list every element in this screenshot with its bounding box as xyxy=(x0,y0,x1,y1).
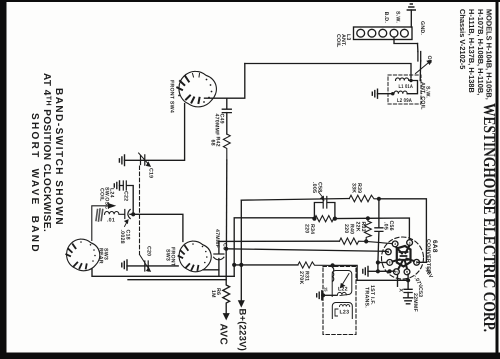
coil L2 xyxy=(394,91,407,94)
L22 slug outline xyxy=(332,271,352,297)
label R34 220 xyxy=(304,224,316,234)
svg-text:6A8: 6A8 xyxy=(431,240,438,253)
svg-text:.0028: .0028 xyxy=(119,230,125,244)
capacitor C56 xyxy=(375,228,383,232)
svg-text:OD: OD xyxy=(426,56,432,64)
svg-text:3: 3 xyxy=(394,242,396,246)
svg-text:-95V: -95V xyxy=(423,266,434,280)
IF trimmer arrow xyxy=(341,274,350,288)
svg-text:B+(223V): B+(223V) xyxy=(237,309,248,352)
svg-text:.005: .005 xyxy=(311,182,317,193)
label R6 1M xyxy=(210,288,221,298)
node R39/C56 xyxy=(377,197,381,201)
label L24 SW.OSC COIL xyxy=(99,187,115,209)
heater stub X xyxy=(397,275,399,287)
B+ arrow xyxy=(238,301,244,307)
L23 slug xyxy=(332,303,352,319)
wire main horizontal top xyxy=(245,64,411,79)
coil L24 winding xyxy=(105,212,125,215)
osc coil arm wire + arrow xyxy=(92,206,109,241)
svg-text:TRANS.: TRANS. xyxy=(364,287,370,308)
svg-text:COIL: COIL xyxy=(99,188,105,202)
tube 6A8 converter xyxy=(382,237,424,279)
coil core xyxy=(96,209,103,221)
svg-text:H-107B, H-108B, H-110B,: H-107B, H-108B, H-110B, xyxy=(476,9,485,95)
node C53 xyxy=(406,278,410,282)
IF primary coil xyxy=(333,268,334,282)
ground near tube xyxy=(363,267,378,277)
node L2 left xyxy=(391,92,394,95)
coil bumps xyxy=(338,292,347,294)
node R34 right xyxy=(333,217,337,221)
svg-text:MODELS H-104B, H-105B,: MODELS H-104B, H-105B, xyxy=(485,9,494,100)
label 6A8 CONVERTER xyxy=(425,239,438,274)
node R33 bottom xyxy=(364,239,368,243)
svg-text:H-111B, H-137B, H-138B: H-111B, H-137B, H-138B xyxy=(467,9,476,93)
B+ vertical / plate wire corner xyxy=(240,200,242,301)
ground at C22 xyxy=(114,181,119,190)
svg-text:C22: C22 xyxy=(123,191,129,201)
label C18 .0028 with arrow xyxy=(119,230,131,244)
capacitor OD (antenna series) xyxy=(418,44,421,81)
wire screen row xyxy=(219,240,340,242)
label SW3 REAR xyxy=(98,248,109,264)
capacitor C18 xyxy=(125,210,133,219)
svg-text:22K: 22K xyxy=(355,222,361,232)
wire osc grid xyxy=(226,249,388,252)
coil L1 xyxy=(396,78,412,81)
svg-text:REAR: REAR xyxy=(98,248,104,264)
wire SW3 rear bottom xyxy=(92,269,234,277)
node R33 top xyxy=(366,216,370,220)
svg-text:270K: 270K xyxy=(298,271,304,284)
svg-text:C20: C20 xyxy=(146,246,152,256)
svg-text:.01: .01 xyxy=(107,218,115,224)
svg-text:AT 4TH POSITION CLOCKWISE.: AT 4TH POSITION CLOCKWISE. xyxy=(41,73,52,232)
svg-text:15: 15 xyxy=(324,287,329,292)
resistor R31 xyxy=(298,262,333,268)
wire C18 node to SW3 front xyxy=(133,214,183,241)
svg-text:COIL: COIL xyxy=(335,34,341,48)
wire R42 down to C8 node xyxy=(225,160,227,249)
node C56 bottom xyxy=(376,269,380,273)
label FRONT SW3 xyxy=(165,247,176,267)
wire lower long xyxy=(128,279,226,281)
node B+ xyxy=(239,263,243,267)
svg-text:22MMF: 22MMF xyxy=(412,293,418,313)
B+ wire under tube xyxy=(333,265,409,280)
svg-text:220: 220 xyxy=(304,224,310,233)
IF transformer dashed box xyxy=(323,267,356,335)
svg-text:L22: L22 xyxy=(338,287,348,293)
svg-text:C19: C19 xyxy=(148,168,154,178)
node V2/B+ wire xyxy=(232,263,236,267)
grid wire vertical V2 xyxy=(234,218,314,276)
resistor R6 xyxy=(223,249,230,314)
label C8 47MMF xyxy=(214,229,228,250)
svg-text:5: 5 xyxy=(387,250,389,254)
label R40 220 xyxy=(343,224,355,234)
trimmer arrow xyxy=(416,61,432,74)
label R31 270K xyxy=(298,271,310,284)
antenna terminal strip xyxy=(354,27,413,40)
svg-text:BAND-SWITCH SHOWN: BAND-SWITCH SHOWN xyxy=(53,88,64,225)
svg-text:FRONT SW4: FRONT SW4 xyxy=(169,80,175,113)
svg-text:220: 220 xyxy=(343,224,349,233)
ground at strip xyxy=(407,4,415,27)
svg-text:GND.: GND. xyxy=(419,21,425,35)
svg-text:X: X xyxy=(397,288,403,292)
svg-text:WESTINGHOUSE ELECTRIC CORP.: WESTINGHOUSE ELECTRIC CORP. xyxy=(480,103,499,332)
wire L2 right to trimmer line xyxy=(407,81,417,94)
resistor R34 xyxy=(314,216,335,222)
note text: band-switch xyxy=(29,73,64,252)
wire SW4 left pin down xyxy=(125,104,185,161)
resistor R42 xyxy=(223,134,230,160)
wire strip to SW trimmer xyxy=(394,37,418,43)
gang dashed link xyxy=(139,166,141,255)
label C53 22MMF xyxy=(412,287,423,313)
label L3 ANT. COIL xyxy=(335,34,351,48)
capacitor C22 xyxy=(120,181,134,214)
ground at C19 xyxy=(119,155,124,166)
svg-text:33K: 33K xyxy=(351,183,357,193)
capacitor C58 bypass xyxy=(314,197,335,219)
C56 line xyxy=(378,199,379,263)
svg-text:L1 01A: L1 01A xyxy=(399,84,414,90)
node R34 left xyxy=(312,217,316,221)
heater/cathode wires xyxy=(378,262,395,271)
node R42/osc-grid xyxy=(224,247,228,251)
svg-text:470MMF: 470MMF xyxy=(214,114,220,137)
svg-text:H: H xyxy=(395,270,398,274)
svg-text:B.D.: B.D. xyxy=(383,12,389,24)
band switch SW3 REAR xyxy=(66,239,99,271)
svg-text:2: 2 xyxy=(416,261,418,265)
node L1 top xyxy=(409,79,412,82)
plate wire with R39 xyxy=(241,199,349,201)
svg-text:1M: 1M xyxy=(210,290,216,298)
svg-text:L2 09A: L2 09A xyxy=(397,98,412,104)
node IF primary xyxy=(331,263,335,267)
svg-text:68: 68 xyxy=(210,140,216,146)
plate wire to tube xyxy=(379,199,427,262)
sw ant coil box (dashed) xyxy=(388,75,421,104)
title text: models / company xyxy=(458,9,493,100)
band switch FRONT SW3 xyxy=(179,241,212,272)
svg-text:L23: L23 xyxy=(340,310,350,316)
svg-text:8: 8 xyxy=(389,261,391,265)
ground in IF box xyxy=(317,291,337,300)
svg-text:S.W.: S.W. xyxy=(395,11,401,23)
ground + trimmer C20 xyxy=(122,255,178,272)
wire top corner down to SW4 xyxy=(205,64,245,99)
label C56 .05 xyxy=(383,221,395,231)
ground at L2 xyxy=(372,89,392,98)
capacitor C53 xyxy=(404,274,413,304)
label R39 33K xyxy=(351,183,363,193)
signal grid wire xyxy=(314,218,409,240)
resistor R33 xyxy=(365,218,372,241)
label R42 68 xyxy=(210,137,221,147)
svg-text:SHORT WAVE BAND: SHORT WAVE BAND xyxy=(29,113,40,252)
AVC arrow xyxy=(223,314,229,320)
node C18/C22 xyxy=(131,212,135,216)
svg-text:SW3: SW3 xyxy=(165,249,171,261)
label C58 .005 + arrow xyxy=(311,182,323,193)
node heater wire xyxy=(388,269,392,273)
band switch FRONT SW4 xyxy=(177,71,216,107)
svg-text:.05: .05 xyxy=(383,222,389,230)
svg-text:Chassis V-2102-5: Chassis V-2102-5 xyxy=(458,9,467,69)
label 1ST I.F. TRANS. xyxy=(364,285,376,308)
resistor R39 xyxy=(349,195,379,202)
B+ feed wire xyxy=(234,264,298,266)
svg-text:47MMF: 47MMF xyxy=(214,229,220,249)
svg-text:4: 4 xyxy=(409,241,411,245)
label C49 470MMF xyxy=(214,114,225,137)
capacitor C49 xyxy=(222,98,231,134)
svg-text:ANT. COIL: ANT. COIL xyxy=(420,82,426,110)
node C56/cathode xyxy=(376,260,380,264)
label R33 22K xyxy=(355,222,367,232)
wire SW3 front bottom jog xyxy=(203,269,219,271)
resistor R40 xyxy=(339,238,392,244)
trimmer C19 xyxy=(139,153,151,166)
label S.W. ANT COIL xyxy=(420,82,431,110)
svg-text:AVC: AVC xyxy=(218,324,229,346)
capacitor C8 xyxy=(214,241,224,276)
